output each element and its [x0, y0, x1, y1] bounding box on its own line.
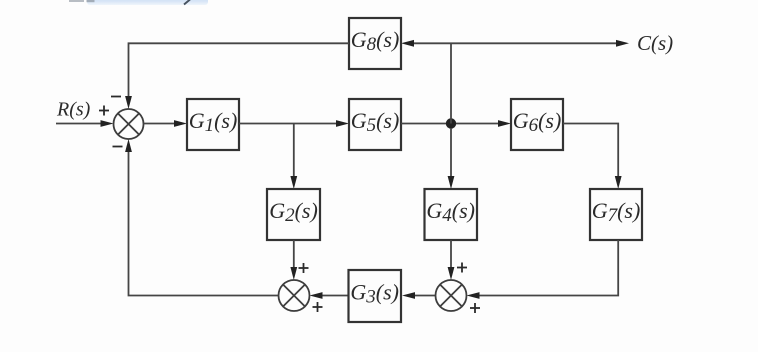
- wire: G5 output to block G6 through pickoff node: [401, 120, 511, 127]
- wire: G4 output down into summing junction S3: [448, 240, 455, 280]
- wire: branch down from G1-G5 line to block G2: [290, 124, 297, 190]
- wire: G1 output to block G5 (with branch node to G2): [239, 120, 349, 127]
- screenshot artifact: highlighted text remnant top edge: [69, 0, 208, 5]
- wire: node up to top feedback line: [450, 43, 452, 123]
- summing junction S1: [114, 109, 144, 139]
- wire: G3 output into S2 right side: [310, 292, 349, 299]
- block G6: [511, 99, 563, 150]
- block G1: [187, 99, 239, 150]
- pickoff node after G5: [446, 118, 456, 128]
- wire: top line into G8 right side: [401, 40, 451, 47]
- wire: G7 output down then left into S3 right side: [467, 240, 619, 299]
- sign - above S1 (feedback from G8): [111, 96, 121, 98]
- wire: G8 output left then down into S1 top: [125, 43, 349, 109]
- sign + at S3 right input: [470, 303, 480, 313]
- summing junction S2: [279, 280, 310, 311]
- wire: node down into block G4: [448, 128, 455, 189]
- sign + at S2 top input: [299, 263, 309, 273]
- block G7: [590, 189, 642, 240]
- summing junction S3: [436, 280, 467, 311]
- sign + at S1 input: [99, 106, 109, 116]
- block G8: [349, 18, 401, 69]
- wire: G6 output right then down into block G7: [563, 124, 622, 190]
- wire: S2 output left then up into S1 bottom: [125, 139, 278, 296]
- svg-text:R(s): R(s): [56, 99, 91, 121]
- sign + at S3 top input: [457, 263, 467, 273]
- wire: S1 output to block G1: [144, 120, 188, 127]
- sign - below S1 (feedback from S2): [113, 146, 123, 148]
- wire: top line from node to C(s) output arrow: [451, 40, 629, 47]
- wire: input R(s) into summing junction S1: [56, 120, 114, 127]
- svg-text:C(s): C(s): [637, 31, 673, 55]
- sign + at S2 right input: [313, 302, 323, 312]
- wire: G2 output down into summing junction S2: [290, 240, 297, 280]
- wire: S3 output into G3 right side: [402, 292, 436, 299]
- block G4: [425, 189, 478, 240]
- block G2: [267, 189, 320, 240]
- block G5: [349, 99, 401, 150]
- block G3: [349, 270, 402, 322]
